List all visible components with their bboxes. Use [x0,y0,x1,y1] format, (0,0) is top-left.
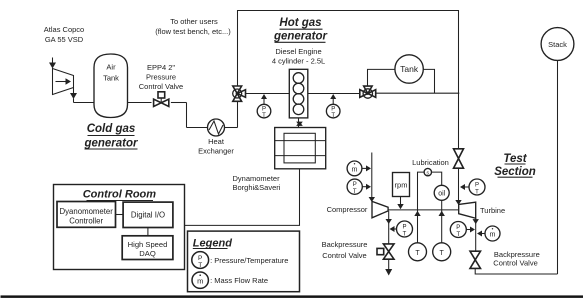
svg-text:T: T [475,190,479,196]
svg-text:: Pressure/Temperature: : Pressure/Temperature [210,256,288,265]
svg-text:Dyanomometer: Dyanomometer [60,207,114,216]
svg-text:T: T [262,113,266,119]
svg-text:rpm: rpm [395,181,408,190]
svg-text:GA 55 VSD: GA 55 VSD [45,35,84,44]
svg-text:Tank: Tank [103,74,119,83]
svg-text:oil: oil [438,191,445,198]
svg-text:P: P [262,107,266,113]
svg-text:Heat: Heat [208,137,225,146]
svg-text:m: m [490,232,496,239]
svg-text:Test: Test [503,153,527,165]
svg-text:P: P [456,225,460,231]
svg-text:: Mass Flow Rate: : Mass Flow Rate [210,276,268,285]
svg-text:P: P [402,225,406,231]
svg-text:T: T [456,232,460,238]
svg-text:Atlas Copco: Atlas Copco [44,25,84,34]
svg-text:Lubrication: Lubrication [412,158,449,167]
svg-text:m: m [352,167,358,174]
svg-text:Borghi&Saveri: Borghi&Saveri [233,183,281,192]
svg-text:DAQ: DAQ [139,249,156,258]
svg-text:Hot gas: Hot gas [279,17,321,29]
svg-text:High Speed: High Speed [128,240,168,249]
svg-text:T: T [331,113,335,119]
svg-text:P: P [198,255,202,262]
svg-text:(flow test bench, etc...): (flow test bench, etc...) [155,27,231,36]
svg-text:Pressure: Pressure [146,73,176,82]
svg-text:P: P [353,182,357,188]
svg-text:generator: generator [273,30,328,42]
svg-text:Dynamometer: Dynamometer [233,174,281,183]
svg-text:To other users: To other users [170,17,218,26]
svg-text:Cold gas: Cold gas [87,123,136,135]
svg-text:m: m [197,277,203,286]
svg-text:Exchanger: Exchanger [198,147,234,156]
svg-text:Stack: Stack [548,40,567,49]
svg-text:4 cylinder - 2.5L: 4 cylinder - 2.5L [272,57,325,66]
svg-text:Diesel Engine: Diesel Engine [275,47,321,56]
svg-text:Legend: Legend [193,237,232,249]
svg-text:Backpressure: Backpressure [322,240,368,249]
svg-text:P: P [331,107,335,113]
svg-text:Section: Section [494,166,536,178]
svg-text:Control Valve: Control Valve [493,259,537,268]
svg-text:Control Valve: Control Valve [322,251,366,260]
svg-text:generator: generator [83,138,138,150]
svg-text:EPP4 2": EPP4 2" [147,63,175,72]
svg-text:Digital I/O: Digital I/O [131,211,165,220]
svg-text:Controller: Controller [69,216,103,225]
svg-text:Air: Air [106,63,116,72]
svg-text:T: T [440,250,445,257]
svg-text:T: T [353,189,357,195]
svg-text:Control Room: Control Room [83,189,157,201]
svg-text:Control Valve: Control Valve [139,82,183,91]
svg-text:Compressor: Compressor [327,205,368,214]
svg-text:T: T [403,232,407,238]
svg-text:Turbine: Turbine [480,206,505,215]
svg-text:T: T [415,250,420,257]
svg-text:Tank: Tank [400,64,419,74]
svg-text:P: P [475,183,479,189]
svg-text:T: T [198,262,202,269]
